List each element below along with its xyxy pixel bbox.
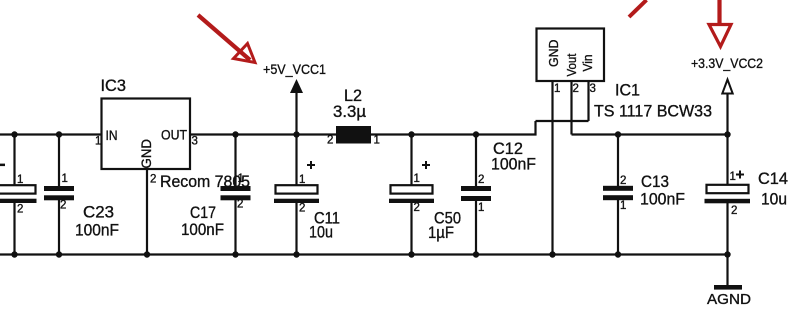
node dot C12 top bbox=[473, 131, 479, 137]
svg-text:1: 1 bbox=[299, 174, 305, 186]
wire IC1 pin1 GND to bottom rail bbox=[551, 81, 553, 255]
svg-text:2: 2 bbox=[573, 83, 579, 95]
node dot C50 bottom bbox=[408, 251, 414, 257]
wire IC1 pin3 Vin stub bbox=[587, 81, 589, 121]
svg-text:10u: 10u bbox=[309, 223, 333, 242]
svg-text:+5V_VCC1: +5V_VCC1 bbox=[263, 61, 326, 77]
wire AGND bottom rail bbox=[0, 253, 729, 255]
svg-text:Vout: Vout bbox=[564, 53, 579, 76]
svg-text:GND: GND bbox=[546, 40, 561, 68]
svg-text:IC3: IC3 bbox=[101, 76, 127, 95]
wire +5V top rail right segment (IC3 OUT through L2 to IC1 Vin corner) bbox=[190, 133, 537, 135]
wire IC3 GND pin to bottom rail bbox=[146, 169, 148, 255]
svg-text:1: 1 bbox=[238, 173, 244, 185]
capacitor C13 100nF bbox=[603, 135, 685, 255]
capacitor C50 1uF electrolytic bbox=[389, 135, 461, 255]
supply symbol +3.3V_VCC2 bbox=[691, 55, 763, 135]
svg-text:100nF: 100nF bbox=[75, 221, 119, 240]
red annotation arrow to +3.3V_VCC2 bbox=[709, 0, 731, 47]
svg-text:100nF: 100nF bbox=[181, 220, 224, 239]
svg-text:2: 2 bbox=[17, 204, 23, 216]
svg-text:C13: C13 bbox=[641, 172, 669, 191]
svg-text:Vin: Vin bbox=[580, 55, 595, 72]
svg-text:AGND: AGND bbox=[707, 291, 751, 308]
wire Vin jog horizontal bbox=[536, 120, 589, 122]
capacitor C11 10u electrolytic bbox=[274, 135, 340, 255]
svg-text:2: 2 bbox=[299, 203, 305, 215]
svg-text:10u: 10u bbox=[761, 190, 787, 209]
capacitor C14 10u electrolytic bbox=[705, 135, 789, 255]
node dot left cap top bbox=[11, 131, 17, 137]
svg-text:IN: IN bbox=[106, 128, 118, 143]
node dot C12 bottom bbox=[473, 251, 479, 257]
node dot C17 bottom bbox=[232, 251, 238, 257]
node dot left cap bottom bbox=[11, 251, 17, 257]
svg-text:1: 1 bbox=[478, 202, 484, 214]
svg-text:C23: C23 bbox=[83, 203, 114, 222]
capacitor C17 100nF bbox=[181, 135, 251, 255]
svg-text:100nF: 100nF bbox=[491, 155, 536, 174]
node dot C23 bottom bbox=[56, 251, 62, 257]
node dot C13 bottom bbox=[615, 251, 621, 257]
node dot C13 top bbox=[615, 131, 621, 137]
node dot IC3 GND bottom bbox=[144, 251, 150, 257]
svg-text:1: 1 bbox=[374, 135, 380, 147]
wire Vout +3.3V rail bbox=[572, 133, 729, 135]
node dot C23 top bbox=[56, 131, 62, 137]
inductor L2 3.3u bbox=[327, 86, 380, 147]
svg-text:1: 1 bbox=[554, 83, 560, 95]
svg-text:3: 3 bbox=[192, 136, 198, 148]
svg-text:GND: GND bbox=[139, 139, 154, 169]
svg-text:100nF: 100nF bbox=[640, 190, 685, 209]
svg-text:1: 1 bbox=[62, 173, 68, 185]
capacitor C23 100nF bbox=[44, 135, 119, 255]
svg-text:2: 2 bbox=[620, 175, 626, 187]
svg-text:1: 1 bbox=[730, 171, 736, 183]
svg-text:IC1: IC1 bbox=[615, 81, 640, 100]
voltage regulator IC1 TS1117 bbox=[537, 29, 713, 121]
svg-text:3: 3 bbox=[590, 83, 596, 95]
svg-text:2: 2 bbox=[414, 202, 420, 214]
wire IC1 pin2 Vout down to rail bbox=[570, 81, 572, 135]
svg-text:2: 2 bbox=[478, 174, 484, 186]
ground symbol AGND bbox=[707, 255, 751, 309]
supply symbol +5V_VCC1 bbox=[263, 61, 326, 135]
red annotation line partial top bbox=[629, 0, 647, 17]
svg-text:1: 1 bbox=[620, 200, 626, 212]
node dot C17 top bbox=[232, 131, 238, 137]
node dot C11 bottom bbox=[293, 251, 299, 257]
svg-text:1: 1 bbox=[17, 174, 23, 186]
svg-text:2: 2 bbox=[150, 174, 156, 186]
svg-text:+3.3V_VCC2: +3.3V_VCC2 bbox=[691, 55, 763, 71]
svg-text:1: 1 bbox=[414, 173, 420, 185]
svg-text:1: 1 bbox=[95, 136, 101, 148]
svg-text:2: 2 bbox=[327, 135, 333, 147]
node dot VCC1/C11 top bbox=[293, 131, 299, 137]
node dot IC1 GND bottom bbox=[549, 251, 555, 257]
wire +5V top rail left segment (to IC3 IN pin) bbox=[0, 133, 102, 135]
svg-text:OUT: OUT bbox=[161, 128, 187, 143]
svg-text:2: 2 bbox=[237, 199, 243, 211]
node dot C50 top bbox=[408, 131, 414, 137]
svg-text:TS 1117 BCW33: TS 1117 BCW33 bbox=[594, 102, 712, 121]
node dot C14 bottom bbox=[724, 251, 730, 257]
wire Vin jog vertical to +5V rail bbox=[534, 121, 536, 136]
red annotation arrow to +5V_VCC1 bbox=[198, 15, 255, 63]
capacitor C22 partial electrolytic at left edge bbox=[0, 135, 37, 255]
svg-text:2: 2 bbox=[60, 200, 66, 212]
svg-text:1µF: 1µF bbox=[428, 223, 454, 242]
svg-text:3.3µ: 3.3µ bbox=[333, 102, 366, 121]
svg-text:2: 2 bbox=[731, 205, 737, 217]
voltage regulator IC3 Recom 7805 bbox=[95, 76, 250, 191]
capacitor C12 100nF bbox=[461, 135, 536, 255]
node dot VCC2/C14 top bbox=[724, 131, 730, 137]
svg-text:C14: C14 bbox=[758, 169, 788, 188]
